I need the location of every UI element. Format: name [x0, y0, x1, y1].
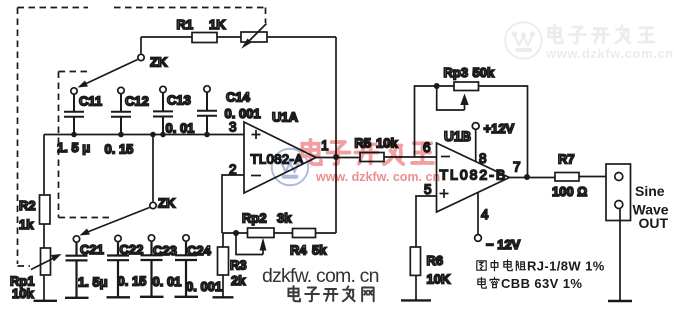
wire top row — [141, 36, 336, 38]
svg-text:U1B: U1B — [444, 129, 471, 144]
potentiometer Rp2 — [233, 228, 274, 255]
resistor R2 — [40, 195, 51, 224]
wire R7 to output jack — [579, 176, 606, 178]
svg-text:C24: C24 — [187, 243, 212, 258]
svg-text:RJ-1/8W 1%: RJ-1/8W 1% — [527, 259, 605, 274]
node pin1 output — [316, 157, 360, 159]
svg-text:C14: C14 — [226, 90, 251, 105]
svg-text:0. 001: 0. 001 — [186, 279, 222, 294]
svg-text:3k: 3k — [277, 211, 292, 226]
svg-text:Rp3: Rp3 — [444, 65, 469, 80]
wire Rp1 to ground — [43, 275, 45, 301]
svg-text:C11: C11 — [79, 94, 102, 109]
svg-text:3: 3 — [229, 120, 237, 135]
svg-text:OUT: OUT — [639, 215, 669, 231]
svg-text:1K: 1K — [209, 17, 226, 32]
capacitor C11 — [64, 88, 84, 135]
svg-text:R7: R7 — [558, 152, 575, 167]
svg-text:5: 5 — [424, 182, 432, 197]
capacitor C21 — [65, 236, 89, 298]
svg-text:0. 15: 0. 15 — [105, 142, 134, 157]
resistor R4 — [293, 229, 316, 238]
svg-text:10K: 10K — [427, 272, 451, 287]
watermark text top-right — [545, 25, 674, 61]
resistor R5 — [360, 153, 384, 162]
node output — [524, 174, 530, 180]
+12V supply — [472, 123, 479, 162]
potentiometer Rp3 — [415, 82, 528, 177]
switch ZK (bottom wiper) — [80, 135, 157, 236]
mechanical linkage dashed line (inner, between ZK wipers) — [59, 72, 111, 218]
svg-text:4: 4 — [481, 207, 489, 222]
potentiometer (trimmer in series with R1) — [241, 24, 267, 49]
wire pin5 to R6 — [416, 196, 437, 247]
label Sine Wave OUT — [633, 183, 669, 231]
resistor R1 — [192, 33, 217, 43]
op-amp U1B — [437, 143, 510, 212]
svg-text:C13: C13 — [167, 93, 191, 108]
svg-text:2k: 2k — [231, 273, 246, 288]
-12V supply — [475, 193, 482, 242]
op-amp U1A — [244, 122, 316, 193]
annotation line 2: capacitors CBB 63V 1% — [478, 276, 582, 291]
svg-text:C21: C21 — [80, 242, 104, 257]
svg-text:1k: 1k — [19, 217, 34, 232]
switch ZK (top wiper) — [78, 37, 145, 88]
node C14-bus — [204, 132, 210, 138]
mechanical linkage dashed box (outer) — [18, 8, 266, 267]
output jack — [606, 164, 632, 301]
svg-text:R1: R1 — [177, 17, 194, 32]
svg-text:R4: R4 — [290, 243, 307, 258]
svg-text:+12V: +12V — [484, 121, 515, 136]
svg-text:R3: R3 — [230, 258, 247, 273]
svg-text:U1A: U1A — [272, 110, 299, 125]
wire bus (+ input node) — [44, 134, 244, 136]
svg-text:0. 01: 0. 01 — [166, 121, 195, 136]
watermark logo mid (blue) — [272, 149, 308, 185]
svg-text:www.dzkfw.com.cn: www.dzkfw.com.cn — [545, 46, 674, 61]
svg-text:C22: C22 — [120, 242, 144, 257]
svg-text:www. dzkfw. com. cn: www. dzkfw. com. cn — [315, 170, 440, 184]
node C12-bus — [118, 132, 124, 138]
wire R5 to pin6 — [384, 156, 437, 158]
wire left branch down — [43, 135, 45, 196]
wire feedback vertical — [335, 37, 337, 233]
node C11-bus — [71, 132, 77, 138]
wire R2 to Rp1 — [43, 224, 45, 248]
svg-text:0. 01: 0. 01 — [153, 274, 182, 289]
ground (Rp1) — [34, 300, 58, 302]
node C13-bus — [160, 132, 166, 138]
resistor R3 — [213, 233, 234, 297]
svg-text:50k: 50k — [473, 65, 495, 80]
watermark text mid (pink) — [302, 140, 440, 184]
svg-text:10k: 10k — [12, 286, 34, 301]
capacitor C22 — [107, 235, 131, 297]
annotation line 1: resistors RJ-1/8W 1% — [477, 259, 605, 274]
svg-text:5k: 5k — [312, 243, 327, 258]
resistor R6 — [401, 247, 431, 300]
svg-text:1. 5 μ: 1. 5 μ — [57, 140, 90, 155]
potentiometer Rp1 — [31, 248, 62, 275]
svg-text:− 12V: − 12V — [486, 237, 521, 252]
capacitor C14 — [197, 86, 217, 135]
svg-text:R2: R2 — [19, 198, 36, 213]
resistor R7 — [555, 173, 579, 182]
wire U1B output — [510, 177, 556, 179]
capacitor C13 — [153, 86, 173, 134]
capacitor C23 — [140, 235, 164, 297]
svg-text:C12: C12 — [125, 94, 149, 109]
wire pin2 to bottom — [222, 175, 244, 233]
svg-text:dzkfw. com. cn: dzkfw. com. cn — [262, 265, 379, 287]
svg-text:ZK: ZK — [150, 55, 168, 70]
svg-text:R6: R6 — [427, 253, 444, 268]
capacitor C12 — [111, 87, 131, 134]
watermark logo top-right — [505, 22, 541, 58]
svg-text:CBB 63V 1%: CBB 63V 1% — [501, 276, 582, 291]
svg-text:ZK: ZK — [158, 196, 176, 211]
svg-text:TL082-B: TL082-B — [440, 167, 508, 183]
svg-text:Rp2: Rp2 — [242, 211, 267, 226]
wire bottom feedback row — [222, 232, 336, 234]
svg-text:1. 5μ: 1. 5μ — [78, 275, 108, 290]
node ZK2-bus — [150, 132, 156, 138]
capacitor C24 — [175, 235, 199, 297]
watermark text bottom-left (dark) — [262, 265, 379, 301]
svg-text:7: 7 — [513, 160, 521, 175]
svg-text:Sine: Sine — [635, 183, 665, 199]
svg-text:C23: C23 — [153, 243, 177, 258]
svg-text:0. 15: 0. 15 — [118, 274, 147, 289]
svg-text:100 Ω: 100 Ω — [552, 184, 587, 199]
svg-text:8: 8 — [479, 151, 487, 166]
